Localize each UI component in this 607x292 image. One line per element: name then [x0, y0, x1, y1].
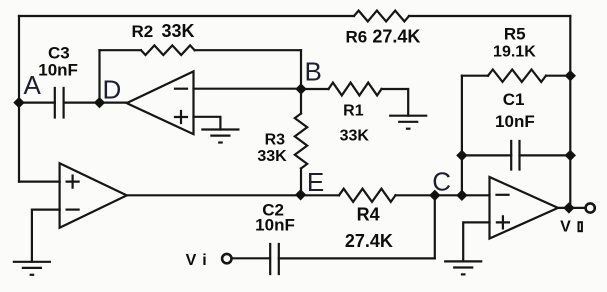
wire U1 noninverting to ground [194, 117, 221, 130]
svg-text:R4: R4 [357, 205, 380, 225]
svg-text:C: C [432, 166, 451, 196]
wire D up to R2 [98, 50, 100, 102]
resistor R5 [488, 70, 546, 82]
junction C1 left [457, 150, 467, 160]
op-amp U3 [490, 177, 559, 239]
wire left rail [18, 16, 20, 182]
svg-text:R1: R1 [343, 102, 364, 119]
wire top-left segment [19, 15, 354, 17]
wire node C to second junction [435, 194, 462, 196]
node C junction [430, 190, 440, 200]
wire Vi to C2 [232, 257, 271, 259]
resistor R4 [339, 189, 396, 202]
wire C3 to D to op-amp apex [64, 101, 127, 103]
resistor R1 [329, 83, 382, 96]
capacitor C3 [55, 88, 64, 118]
wire R3 top lead [300, 89, 302, 114]
svg-text:10nF: 10nF [38, 61, 78, 80]
node E junction [296, 190, 306, 200]
svg-text:R6: R6 [346, 27, 368, 46]
wire U3 output [558, 207, 585, 209]
wire R2 right lead [195, 49, 301, 51]
ground under U3 [445, 261, 481, 267]
svg-text:33K: 33K [340, 128, 370, 145]
svg-text:27.4K: 27.4K [345, 231, 393, 251]
junction C1 right [565, 150, 575, 160]
svg-text:R5: R5 [504, 25, 526, 44]
node B junction [296, 84, 306, 94]
svg-text:10nF: 10nF [495, 112, 535, 131]
wire R3 bottom lead [300, 169, 302, 196]
svg-text:27.4K: 27.4K [372, 26, 420, 46]
wire U2 noninverting input [19, 181, 60, 183]
wire U2 output to R4 [127, 194, 339, 196]
svg-text:i: i [202, 252, 206, 269]
svg-text:19.1K: 19.1K [493, 43, 536, 60]
wire R2 left lead [100, 49, 142, 51]
wire U1 inverting input to B [194, 88, 302, 90]
wire A to C3 [19, 101, 55, 103]
wire left rail of R5C1 [461, 76, 463, 196]
node A junction [14, 98, 24, 108]
wire top-right segment [409, 15, 570, 17]
wire junction to U3 inverting input [462, 194, 490, 196]
wire R1 left lead [301, 88, 329, 90]
wire R1 right lead [382, 89, 409, 116]
wire C2 to node C drop [279, 257, 435, 259]
op-amp U1 [127, 71, 194, 134]
svg-text:33K: 33K [161, 21, 194, 41]
wire right rail [569, 16, 571, 208]
wire R4 to node C [396, 194, 435, 196]
wire R5 left lead [462, 75, 488, 77]
ground after R1 [390, 116, 426, 122]
resistor R3 [295, 114, 307, 169]
resistor R2 [141, 45, 195, 55]
svg-text:E: E [307, 167, 324, 197]
svg-text:D: D [103, 75, 122, 105]
svg-text:R3: R3 [265, 131, 286, 148]
wire C1 left lead [462, 154, 511, 156]
svg-text:R2: R2 [132, 22, 154, 41]
wire U3 noninverting to ground [463, 222, 489, 261]
wire R5 right lead [546, 75, 570, 77]
svg-text:V: V [186, 252, 197, 269]
svg-text:A: A [24, 70, 42, 100]
svg-text:B: B [305, 56, 322, 86]
ground under U1 [202, 130, 238, 136]
node D junction [95, 98, 105, 108]
ground under U2 [14, 262, 50, 268]
svg-text:33K: 33K [257, 148, 287, 165]
resistor R6 [354, 11, 409, 22]
wire C1 right lead [520, 154, 571, 156]
wire node C down to C2 line [434, 195, 436, 258]
svg-text:10nF: 10nF [255, 216, 295, 235]
junction C to U3 [457, 190, 467, 200]
label Vo square glyph [579, 222, 582, 231]
capacitor C2 [270, 244, 279, 274]
terminal Vo [586, 203, 595, 212]
wire U2 inverting to ground [32, 210, 60, 262]
svg-text:V: V [560, 219, 571, 236]
svg-text:C1: C1 [503, 90, 525, 109]
capacitor C1 [511, 141, 519, 170]
terminal Vi [222, 254, 231, 263]
op-amp U2 [60, 163, 127, 228]
junction output node [564, 203, 574, 213]
wire down to node B [300, 50, 302, 89]
junction R5 right [565, 71, 575, 81]
